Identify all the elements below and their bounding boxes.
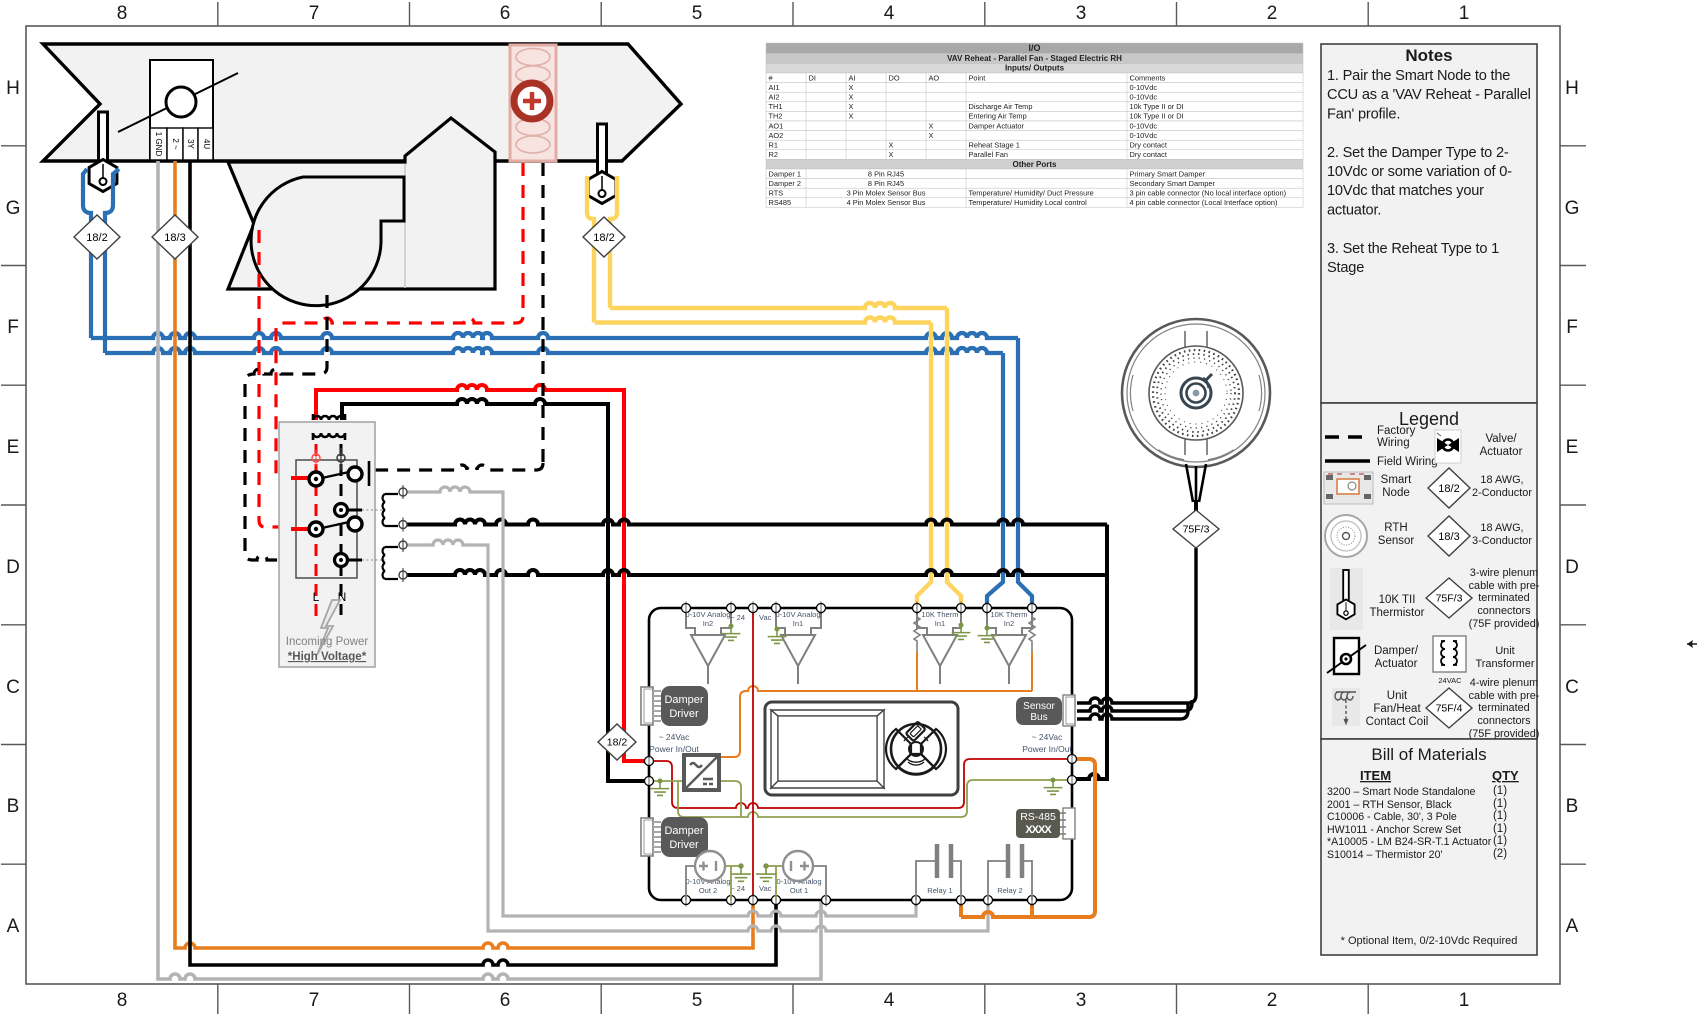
input ground symbols	[728, 623, 733, 628]
svg-text:~ 24: ~ 24	[730, 613, 745, 622]
damper terminal strip 1GND 2~ 3Y 4U	[150, 128, 213, 160]
svg-text:18/2: 18/2	[607, 737, 628, 749]
svg-text:3. Set the Reheat Type to 1: 3. Set the Reheat Type to 1	[1327, 241, 1499, 257]
svg-text:10Vdc or some variation of 0-: 10Vdc or some variation of 0-	[1327, 164, 1512, 180]
svg-text:Parallel Fan: Parallel Fan	[969, 150, 1008, 159]
svg-text:3 pin cable connector (No loca: 3 pin cable connector (No local interfac…	[1130, 189, 1287, 198]
yellow thermistor TH2 wire pair (18/2)	[587, 176, 961, 608]
10K Therm In2 amplifier	[987, 612, 1035, 684]
viewer scroll arrow marker	[1687, 640, 1693, 648]
Sensor Bus port	[1016, 697, 1062, 725]
svg-text:C: C	[6, 677, 20, 698]
svg-text:0-10Vdc: 0-10Vdc	[1130, 131, 1158, 140]
legend 75F/4 diamond	[1426, 688, 1472, 728]
svg-text:H: H	[6, 78, 20, 99]
svg-text:C10006 - Cable, 30', 3 Pole: C10006 - Cable, 30', 3 Pole	[1327, 811, 1457, 823]
thin red 24V rail	[752, 608, 754, 900]
svg-text:Inputs/ Outputs: Inputs/ Outputs	[1005, 63, 1065, 72]
transformer secondary coils	[383, 494, 398, 579]
svg-text:VAV Reheat - Parallel Fan - St: VAV Reheat - Parallel Fan - Staged Elect…	[947, 54, 1122, 63]
svg-text:Other Ports: Other Ports	[1012, 160, 1057, 169]
svg-text:X: X	[889, 141, 894, 150]
svg-text:2: 2	[1267, 990, 1278, 1011]
svg-text:3: 3	[1076, 990, 1087, 1011]
svg-text:DO: DO	[889, 73, 900, 82]
legend contact coil icon	[1332, 688, 1360, 726]
svg-text:Out 2: Out 2	[699, 886, 717, 895]
svg-text:~ 24Vac: ~ 24Vac	[659, 732, 691, 742]
svg-text:1: 1	[1459, 990, 1470, 1011]
red 24Vac hot bus to transformer	[316, 385, 649, 761]
svg-text:terminated: terminated	[1478, 592, 1529, 604]
svg-text:H: H	[1565, 78, 1579, 99]
svg-text:Out 1: Out 1	[790, 886, 808, 895]
sensor cable	[1186, 464, 1206, 502]
svg-text:Actuator: Actuator	[1480, 446, 1523, 458]
svg-text:3200 – Smart Node Standalone: 3200 – Smart Node Standalone	[1327, 786, 1476, 798]
svg-text:In1: In1	[935, 619, 945, 628]
svg-text:3-wire plenum: 3-wire plenum	[1470, 567, 1538, 579]
legend 18/3 diamond	[1428, 516, 1470, 556]
svg-text:R2: R2	[769, 150, 778, 159]
svg-text:AO1: AO1	[769, 121, 784, 130]
svg-text:Secondary Smart Damper: Secondary Smart Damper	[1130, 179, 1216, 188]
controller top terminals	[682, 604, 691, 613]
power supply icon	[684, 755, 719, 790]
svg-text:RS-485: RS-485	[1020, 811, 1056, 823]
svg-text:E: E	[7, 437, 20, 458]
incoming power high-voltage box	[279, 422, 375, 667]
svg-text:Contact Coil: Contact Coil	[1366, 716, 1429, 728]
svg-text:Comments: Comments	[1130, 73, 1166, 82]
thermistor TH2 in duct	[598, 124, 607, 176]
svg-text:X: X	[889, 150, 894, 159]
orange internal wire to damper drivers	[719, 686, 1032, 757]
black dashed factory wiring from heater	[245, 163, 543, 560]
svg-text:QTY: QTY	[1492, 768, 1519, 783]
svg-text:(1): (1)	[1493, 823, 1507, 835]
svg-text:*A10005 - LM B24-SR-T.1 Actuat: *A10005 - LM B24-SR-T.1 Actuator	[1327, 836, 1492, 848]
svg-text:X: X	[849, 83, 854, 92]
svg-text:2 ~: 2 ~	[171, 138, 180, 150]
svg-text:(1): (1)	[1493, 835, 1507, 847]
legend field wiring sample	[1325, 459, 1370, 463]
Bill of Materials panel	[1321, 739, 1537, 955]
svg-text:0-10Vdc: 0-10Vdc	[1130, 93, 1158, 102]
svg-text:0-10Vdc: 0-10Vdc	[1130, 83, 1158, 92]
svg-text:S10014 – Thermistor 20': S10014 – Thermistor 20'	[1327, 849, 1442, 861]
svg-text:Relay 1: Relay 1	[927, 886, 952, 895]
cable tag 18/2 yellow	[583, 217, 625, 257]
orange damper wire 2~	[175, 161, 753, 948]
svg-text:TH2: TH2	[769, 112, 783, 121]
svg-text:* Optional Item, 0/2-10Vdc Req: * Optional Item, 0/2-10Vdc Required	[1341, 935, 1518, 947]
legend damper/actuator icon	[1334, 638, 1359, 674]
Smart Node controller outline	[649, 608, 1072, 900]
analog out 2 source	[686, 866, 695, 900]
dark red internal power wire	[649, 759, 1072, 808]
svg-text:F: F	[1566, 317, 1578, 338]
svg-text:18/2: 18/2	[593, 232, 614, 244]
svg-text:Driver: Driver	[669, 708, 699, 720]
svg-text:HW1011 - Anchor Screw Set: HW1011 - Anchor Screw Set	[1327, 824, 1461, 836]
Damper Driver port 2	[641, 818, 653, 856]
svg-text:Field Wiring: Field Wiring	[1377, 456, 1438, 468]
svg-text:10K Therm: 10K Therm	[922, 610, 959, 619]
svg-text:1 GND: 1 GND	[154, 132, 163, 157]
svg-text:2: 2	[1267, 3, 1278, 24]
svg-text:X: X	[849, 112, 854, 121]
svg-text:75F/4: 75F/4	[1436, 703, 1463, 715]
analog out grounds	[731, 865, 776, 867]
svg-text:*High Voltage*: *High Voltage*	[288, 651, 367, 663]
svg-text:B: B	[7, 796, 20, 817]
svg-text:4-wire plenum: 4-wire plenum	[1470, 677, 1538, 689]
svg-text:6: 6	[500, 990, 511, 1011]
svg-text:2001 – RTH Sensor, Black: 2001 – RTH Sensor, Black	[1327, 799, 1452, 811]
svg-text:D: D	[6, 557, 20, 578]
svg-text:18/2: 18/2	[1438, 483, 1459, 495]
svg-text:2. Set the Damper Type to 2-: 2. Set the Damper Type to 2-	[1327, 145, 1509, 161]
relay 2 contact	[988, 861, 1032, 900]
cable tag 75F/3	[1173, 510, 1219, 548]
svg-text:AI: AI	[849, 73, 856, 82]
svg-text:10k Type II or DI: 10k Type II or DI	[1130, 102, 1184, 111]
svg-text:AI1: AI1	[769, 83, 780, 92]
legend valve/actuator icon	[1435, 430, 1461, 463]
svg-text:75F/3: 75F/3	[1436, 593, 1463, 605]
svg-text:E: E	[1566, 437, 1579, 458]
svg-text:18 AWG,: 18 AWG,	[1480, 474, 1523, 486]
svg-text:Relay 2: Relay 2	[997, 886, 1022, 895]
switch pole 1	[291, 476, 311, 480]
svg-text:Wiring: Wiring	[1377, 437, 1410, 449]
svg-text:0-10V Analog: 0-10V Analog	[685, 610, 730, 619]
thermistor TH1 in duct	[99, 112, 108, 164]
svg-text:Vac: Vac	[759, 884, 772, 893]
svg-text:4 pin cable connector (Local I: 4 pin cable connector (Local Interface o…	[1130, 198, 1278, 207]
legend factory wiring sample	[1325, 435, 1370, 439]
I/O table	[766, 43, 1303, 208]
Notes panel	[1321, 44, 1537, 403]
supply duct arrow body	[43, 44, 681, 161]
svg-text:TH1: TH1	[769, 102, 783, 111]
svg-text:4U: 4U	[202, 139, 211, 149]
svg-text:X: X	[929, 121, 934, 130]
svg-text:Temperature/ Humidity/ Duct Pr: Temperature/ Humidity/ Duct Pressure	[969, 189, 1094, 198]
RTH sensor (temperature and humidity)	[1122, 319, 1270, 467]
svg-text:Temperature/ Humidity Local co: Temperature/ Humidity Local control	[969, 198, 1088, 207]
transformer secondary gray wire 1	[403, 487, 916, 916]
0-10V Analog In1 amplifier	[776, 612, 821, 684]
svg-text:0-10V Analog: 0-10V Analog	[775, 610, 820, 619]
svg-text:actuator.: actuator.	[1327, 202, 1381, 218]
gray damper wire 1 GND	[158, 161, 821, 979]
svg-text:Point: Point	[969, 73, 986, 82]
svg-text:8: 8	[117, 990, 128, 1011]
svg-text:24VAC: 24VAC	[1438, 676, 1462, 685]
svg-text:18/2: 18/2	[86, 232, 107, 244]
svg-text:AI2: AI2	[769, 93, 780, 102]
svg-text:~ 24: ~ 24	[730, 884, 745, 893]
svg-text:3 Pin Molex Sensor Bus: 3 Pin Molex Sensor Bus	[847, 189, 926, 198]
svg-text:Actuator: Actuator	[1375, 658, 1418, 670]
controller bottom terminals	[682, 896, 691, 905]
svg-text:4: 4	[884, 3, 895, 24]
black 24Vac common bus to transformer	[342, 399, 649, 781]
L and N dashed lines inside box	[315, 444, 318, 622]
svg-text:L: L	[313, 590, 320, 604]
svg-text:4: 4	[884, 990, 895, 1011]
transformer secondary black wire 1	[403, 520, 1107, 525]
svg-text:cable with pre-: cable with pre-	[1469, 690, 1540, 702]
svg-text:1: 1	[1459, 3, 1470, 24]
svg-text:Damper/: Damper/	[1374, 645, 1419, 657]
sensor logo	[1181, 374, 1212, 408]
svg-text:Dry contact: Dry contact	[1130, 150, 1167, 159]
svg-text:X: X	[929, 131, 934, 140]
analog out 1 source	[812, 866, 826, 900]
svg-text:5: 5	[692, 990, 703, 1011]
svg-text:Power In/Out: Power In/Out	[649, 744, 699, 754]
svg-text:AO2: AO2	[769, 131, 784, 140]
svg-text:(1): (1)	[1493, 798, 1507, 810]
cable tag 18/3	[152, 215, 198, 259]
svg-text:~ 24Vac: ~ 24Vac	[1032, 732, 1064, 742]
svg-text:Bus: Bus	[1030, 712, 1047, 723]
blue thermistor TH1 wire pair (18/2)	[83, 169, 1032, 608]
fan scroll (blower)	[251, 177, 404, 306]
svg-text:(1): (1)	[1493, 785, 1507, 797]
svg-text:(2): (2)	[1493, 848, 1507, 860]
olive internal common wire	[649, 780, 1072, 817]
svg-text:10K TII: 10K TII	[1379, 594, 1416, 606]
svg-text:X: X	[849, 93, 854, 102]
orange power out wire right side	[961, 759, 1095, 917]
svg-text:connectors: connectors	[1477, 715, 1531, 727]
legend thermistor icon	[1330, 568, 1363, 630]
svg-text:6: 6	[500, 3, 511, 24]
Damper Driver port 1	[641, 687, 653, 725]
svg-text:connectors: connectors	[1477, 605, 1531, 617]
switch pole 2	[291, 527, 311, 531]
svg-text:CCU as a 'VAV Reheat - Paralle: CCU as a 'VAV Reheat - Parallel	[1327, 87, 1531, 103]
svg-text:8: 8	[117, 3, 128, 24]
svg-text:G: G	[1565, 198, 1580, 219]
svg-text:8 Pin RJ45: 8 Pin RJ45	[868, 179, 904, 188]
secondary terminals	[399, 488, 407, 496]
svg-text:RS485: RS485	[769, 198, 792, 207]
svg-text:In1: In1	[793, 619, 803, 628]
cable tag 18/2 controller	[598, 724, 636, 760]
switch input terminals	[312, 454, 320, 462]
transformer secondary black wire 2	[403, 570, 1107, 575]
svg-text:2-Conductor: 2-Conductor	[1472, 487, 1532, 499]
svg-text:Driver: Driver	[669, 839, 699, 851]
svg-text:XXXX: XXXX	[1025, 824, 1052, 836]
damper box on duct	[150, 60, 213, 160]
svg-text:RTH: RTH	[1384, 522, 1407, 534]
navigation wheel	[891, 724, 941, 774]
fan housing and furnace box	[228, 118, 495, 289]
svg-text:7: 7	[309, 3, 320, 24]
legend smart node icon	[1324, 472, 1373, 504]
svg-text:Vac: Vac	[759, 613, 772, 622]
transformer primary coil	[313, 414, 345, 440]
svg-text:D: D	[1565, 557, 1579, 578]
svg-text:(1): (1)	[1493, 810, 1507, 822]
svg-text:18/3: 18/3	[1438, 531, 1459, 543]
cable tag 18/2 blue	[74, 215, 120, 259]
svg-text:18/3: 18/3	[164, 232, 185, 244]
svg-text:5: 5	[692, 3, 703, 24]
svg-text:3-Conductor: 3-Conductor	[1472, 535, 1532, 547]
svg-text:Fan/Heat: Fan/Heat	[1373, 703, 1421, 715]
svg-text:I/O: I/O	[1028, 43, 1040, 53]
lightning bolt icon	[317, 600, 340, 655]
display screen module	[765, 702, 958, 795]
10K Therm In1 amplifier	[914, 612, 961, 684]
svg-text:10K Therm: 10K Therm	[991, 610, 1028, 619]
heater hot indicator	[514, 83, 550, 119]
svg-text:7: 7	[309, 990, 320, 1011]
Legend panel	[1321, 403, 1537, 739]
svg-text:0-10Vdc: 0-10Vdc	[1130, 121, 1158, 130]
svg-text:AO: AO	[929, 73, 940, 82]
svg-text:3: 3	[1076, 3, 1087, 24]
24Vac feed down right side to controller power terminals	[1072, 525, 1107, 780]
svg-text:In2: In2	[1004, 619, 1014, 628]
black damper wire 3Y	[190, 161, 776, 965]
svg-text:Valve/: Valve/	[1485, 433, 1517, 445]
svg-text:DI: DI	[809, 73, 816, 82]
svg-text:Damper: Damper	[664, 825, 703, 837]
svg-text:Unit: Unit	[1495, 645, 1514, 657]
svg-text:10k Type II or DI: 10k Type II or DI	[1130, 112, 1184, 121]
0-10V Analog In2 amplifier	[686, 612, 731, 684]
svg-text:Dry contact: Dry contact	[1130, 141, 1167, 150]
svg-text:Reheat Stage 1: Reheat Stage 1	[969, 141, 1020, 150]
svg-text:C: C	[1565, 677, 1579, 698]
heater element band	[510, 45, 556, 161]
svg-text:18 AWG,: 18 AWG,	[1480, 522, 1523, 534]
svg-text:Notes: Notes	[1405, 46, 1452, 65]
svg-text:G: G	[6, 198, 21, 219]
svg-text:B: B	[1566, 796, 1579, 817]
svg-text:Sensor: Sensor	[1378, 535, 1415, 547]
svg-text:(75F provided): (75F provided)	[1469, 618, 1540, 630]
svg-text:ITEM: ITEM	[1360, 768, 1391, 783]
controller side terminals	[645, 757, 654, 766]
legend 18/2 diamond	[1428, 468, 1470, 508]
svg-text:Primary Smart Damper: Primary Smart Damper	[1130, 169, 1206, 178]
svg-text:terminated: terminated	[1478, 702, 1529, 714]
legend transformer icon	[1433, 636, 1466, 672]
svg-text:Discharge Air Temp: Discharge Air Temp	[969, 102, 1033, 111]
svg-text:R1: R1	[769, 141, 778, 150]
svg-text:Smart: Smart	[1381, 474, 1412, 486]
svg-text:Entering Air Temp: Entering Air Temp	[969, 112, 1027, 121]
svg-text:Power In/Out: Power In/Out	[1022, 744, 1072, 754]
RS-485 port	[1016, 809, 1060, 838]
svg-text:8 Pin RJ45: 8 Pin RJ45	[868, 169, 904, 178]
svg-text:Damper: Damper	[664, 694, 703, 706]
disconnect switch box	[296, 460, 357, 578]
svg-text:1. Pair the Smart Node to the: 1. Pair the Smart Node to the	[1327, 68, 1510, 84]
sensor perforation ring	[1153, 350, 1239, 436]
legend RTH sensor icon	[1325, 515, 1367, 557]
svg-text:Fan' profile.: Fan' profile.	[1327, 106, 1400, 122]
svg-text:X: X	[849, 102, 854, 111]
svg-text:4 Pin Molex Sensor Bus: 4 Pin Molex Sensor Bus	[847, 198, 926, 207]
svg-text:Node: Node	[1382, 487, 1410, 499]
svg-text:Stage: Stage	[1327, 260, 1364, 276]
relay 1 contact	[916, 861, 961, 900]
svg-text:Incoming Power: Incoming Power	[286, 636, 369, 648]
svg-text:Damper Actuator: Damper Actuator	[969, 121, 1025, 130]
legend 75F/3 diamond	[1426, 578, 1472, 618]
transformer secondary gray wire 2	[403, 540, 988, 931]
svg-text:10Vdc that matches your: 10Vdc that matches your	[1327, 183, 1484, 199]
svg-text:Bill of Materials: Bill of Materials	[1371, 745, 1486, 764]
svg-text:Transformer: Transformer	[1476, 658, 1535, 670]
svg-text:Unit: Unit	[1387, 690, 1408, 702]
svg-text:RTS: RTS	[769, 189, 784, 198]
svg-text:cable with pre-: cable with pre-	[1469, 580, 1540, 592]
svg-text:Damper 2: Damper 2	[769, 179, 801, 188]
svg-text:F: F	[7, 317, 19, 338]
red dashed factory wiring from heater	[259, 163, 523, 527]
svg-text:A: A	[7, 916, 20, 937]
svg-text:In2: In2	[703, 619, 713, 628]
svg-text:Damper 1: Damper 1	[769, 169, 801, 178]
svg-text:Sensor: Sensor	[1023, 701, 1055, 712]
svg-text:A: A	[1566, 916, 1579, 937]
switch neutral contacts	[335, 504, 348, 517]
svg-text:3Y: 3Y	[186, 139, 195, 149]
svg-text:75F/3: 75F/3	[1183, 524, 1210, 536]
svg-text:Thermistor: Thermistor	[1370, 607, 1425, 619]
svg-text:Factory: Factory	[1377, 425, 1416, 437]
